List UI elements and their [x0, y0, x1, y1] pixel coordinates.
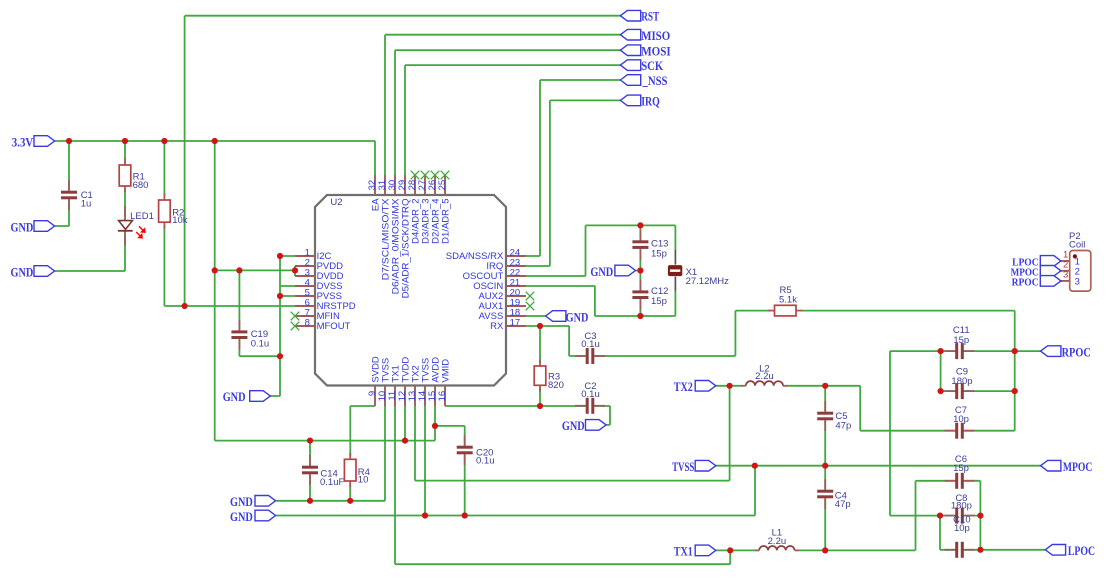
svg-text:0.1u: 0.1u: [476, 456, 495, 467]
svg-text:TX1: TX1: [674, 544, 693, 559]
svg-text:16: 16: [437, 391, 448, 402]
svg-text:TX2: TX2: [674, 379, 693, 394]
svg-text:5.1k: 5.1k: [779, 295, 797, 306]
svg-text:0.1u: 0.1u: [251, 338, 270, 349]
svg-text:2.2u: 2.2u: [755, 371, 774, 382]
svg-text:15p: 15p: [651, 249, 667, 260]
svg-text:0.1uF: 0.1uF: [320, 477, 344, 488]
svg-text:15p: 15p: [651, 296, 667, 307]
svg-text:MFOUT: MFOUT: [317, 321, 351, 332]
svg-text:10p: 10p: [954, 523, 970, 534]
svg-text:180p: 180p: [951, 500, 972, 511]
svg-text:3: 3: [1063, 270, 1068, 281]
svg-text:SCK: SCK: [641, 58, 664, 73]
svg-text:GND: GND: [11, 219, 34, 234]
svg-text:47p: 47p: [835, 499, 851, 510]
svg-text:RX: RX: [490, 321, 504, 332]
svg-text:MOSI: MOSI: [641, 43, 671, 58]
svg-text:27.12MHz: 27.12MHz: [686, 276, 730, 287]
svg-text:MISO: MISO: [641, 28, 670, 43]
svg-text:15p: 15p: [953, 463, 969, 474]
svg-text:2.2u: 2.2u: [768, 536, 787, 547]
svg-text:RPOC: RPOC: [1012, 277, 1039, 289]
svg-text:D1/ADR_5: D1/ADR_5: [440, 198, 451, 243]
svg-text:0.1u: 0.1u: [581, 389, 600, 400]
svg-text:LED1: LED1: [130, 211, 154, 222]
svg-text:47p: 47p: [835, 421, 851, 432]
svg-text:1u: 1u: [81, 199, 92, 210]
svg-text:25: 25: [437, 180, 448, 191]
svg-text:180p: 180p: [951, 376, 972, 387]
svg-text:GND: GND: [566, 309, 589, 324]
svg-text:820: 820: [548, 380, 564, 391]
svg-text:TVSS: TVSS: [672, 459, 694, 474]
svg-text:GND: GND: [223, 389, 246, 404]
svg-text:IRQ: IRQ: [641, 94, 660, 109]
svg-text:GND: GND: [590, 264, 613, 279]
svg-text:GND: GND: [562, 418, 585, 433]
svg-text:3: 3: [1075, 277, 1080, 288]
svg-text:10p: 10p: [953, 414, 969, 425]
svg-text:Coil: Coil: [1069, 240, 1085, 251]
svg-text:17: 17: [510, 317, 521, 328]
svg-text:MPOC: MPOC: [1063, 459, 1093, 474]
svg-text:15p: 15p: [953, 335, 969, 346]
svg-text:8: 8: [305, 317, 310, 328]
svg-text:0.1u: 0.1u: [581, 339, 600, 350]
svg-text:VMID: VMID: [440, 359, 451, 383]
svg-text:GND: GND: [11, 264, 34, 279]
svg-text:10k: 10k: [172, 215, 188, 226]
svg-text:GND: GND: [230, 494, 253, 509]
svg-text:RPOC: RPOC: [1062, 344, 1091, 359]
svg-text:10: 10: [358, 475, 369, 486]
svg-text:GND: GND: [230, 509, 253, 524]
svg-text:3.3V: 3.3V: [12, 134, 34, 149]
svg-text:680: 680: [133, 180, 149, 191]
svg-text:RST: RST: [641, 9, 659, 24]
svg-text:LPOC: LPOC: [1068, 543, 1095, 558]
svg-text:_NSS: _NSS: [642, 73, 668, 88]
svg-text:U2: U2: [330, 197, 342, 208]
